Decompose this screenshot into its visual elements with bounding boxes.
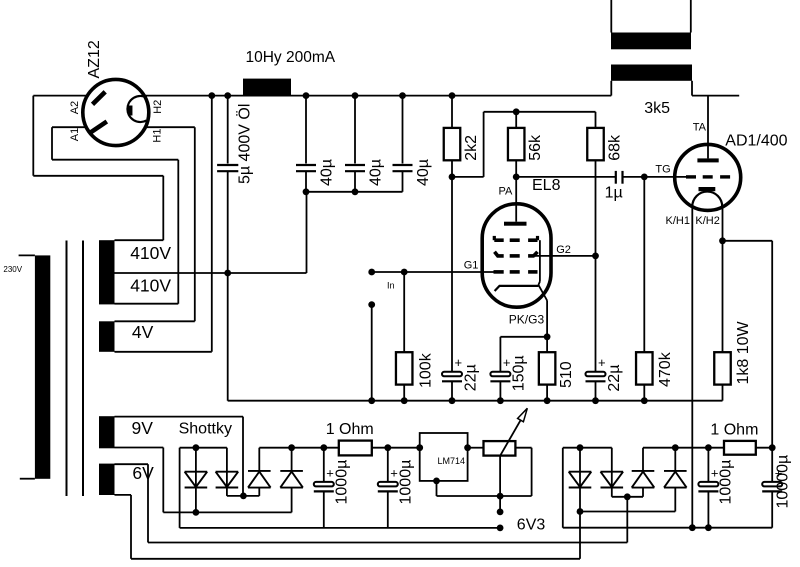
- svg-text:410V: 410V: [130, 275, 171, 295]
- svg-text:1k8 10W: 1k8 10W: [735, 320, 752, 384]
- svg-text:4V: 4V: [132, 322, 154, 342]
- svg-text:AZ12: AZ12: [86, 40, 103, 78]
- svg-text:6V: 6V: [132, 463, 154, 483]
- svg-text:G1: G1: [464, 260, 479, 272]
- svg-text:470k: 470k: [657, 351, 674, 387]
- svg-text:H2: H2: [152, 100, 164, 114]
- svg-text:1000µ: 1000µ: [398, 460, 415, 505]
- svg-text:1000µ: 1000µ: [334, 460, 351, 505]
- svg-text:230V: 230V: [3, 265, 22, 274]
- svg-text:LM714: LM714: [438, 456, 466, 466]
- svg-text:H1: H1: [151, 129, 163, 143]
- svg-text:A2: A2: [69, 101, 81, 114]
- svg-text:A1: A1: [69, 128, 81, 141]
- svg-text:22µ: 22µ: [463, 364, 480, 391]
- svg-text:Shottky: Shottky: [179, 421, 232, 438]
- svg-text:56k: 56k: [527, 134, 544, 161]
- svg-text:1 Ohm: 1 Ohm: [326, 421, 374, 438]
- svg-text:40µ: 40µ: [319, 159, 336, 186]
- svg-text:6V3: 6V3: [517, 517, 546, 534]
- svg-text:10Hy 200mA: 10Hy 200mA: [246, 49, 336, 66]
- svg-text:68k: 68k: [606, 134, 623, 161]
- svg-text:2k2: 2k2: [463, 135, 480, 161]
- svg-text:PA: PA: [499, 185, 514, 197]
- svg-text:1 Ohm: 1 Ohm: [710, 421, 758, 438]
- svg-text:TG: TG: [655, 163, 670, 175]
- svg-text:+: +: [455, 355, 463, 370]
- svg-text:G2: G2: [556, 244, 571, 256]
- svg-text:K/H1: K/H1: [666, 215, 690, 227]
- svg-text:In: In: [387, 281, 395, 291]
- svg-text:150µ: 150µ: [510, 355, 527, 391]
- svg-text:AD1/400: AD1/400: [725, 133, 787, 150]
- svg-text:100k: 100k: [418, 352, 435, 388]
- svg-text:410V: 410V: [130, 243, 171, 263]
- svg-text:510: 510: [558, 361, 575, 388]
- svg-text:1µ: 1µ: [605, 185, 623, 202]
- svg-text:9V: 9V: [132, 418, 154, 438]
- svg-text:10000µ: 10000µ: [775, 455, 792, 509]
- svg-text:1000µ: 1000µ: [718, 460, 735, 505]
- svg-text:40µ: 40µ: [368, 159, 385, 186]
- svg-text:3k5: 3k5: [644, 100, 670, 117]
- svg-text:TA: TA: [693, 122, 707, 134]
- svg-text:40µ: 40µ: [415, 159, 432, 186]
- svg-text:22µ: 22µ: [606, 365, 623, 392]
- svg-text:EL8: EL8: [532, 177, 561, 194]
- svg-text:K/H2: K/H2: [695, 215, 719, 227]
- svg-text:+: +: [598, 355, 606, 370]
- svg-text:5µ 400V Öl: 5µ 400V Öl: [236, 104, 254, 184]
- svg-text:PK/G3: PK/G3: [509, 313, 545, 327]
